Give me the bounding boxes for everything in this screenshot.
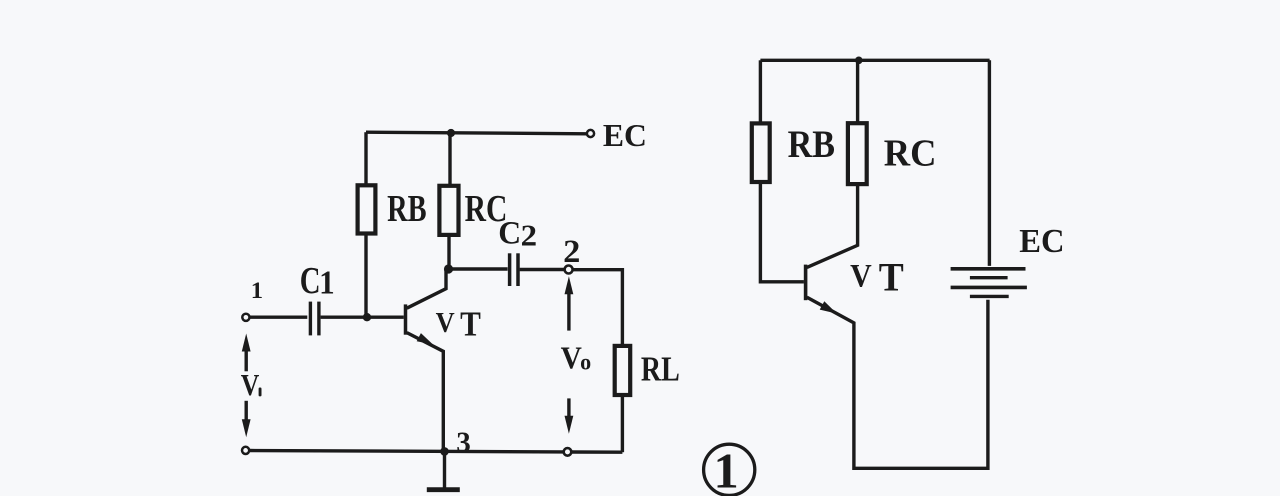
svg-text:V: V bbox=[561, 340, 582, 375]
svg-text:RB: RB bbox=[788, 122, 835, 166]
svg-text:RC: RC bbox=[884, 133, 937, 175]
svg-text:3: 3 bbox=[456, 427, 471, 459]
svg-text:RB: RB bbox=[387, 188, 426, 230]
svg-text:C: C bbox=[498, 214, 521, 251]
svg-text:V: V bbox=[241, 369, 260, 403]
svg-text:V: V bbox=[850, 257, 872, 294]
svg-text:T: T bbox=[879, 256, 904, 299]
svg-text:C: C bbox=[300, 260, 321, 302]
svg-text:EC: EC bbox=[603, 118, 647, 153]
svg-text:1: 1 bbox=[319, 264, 335, 301]
svg-text:1: 1 bbox=[714, 443, 739, 496]
svg-text:RL: RL bbox=[641, 350, 680, 388]
svg-text:2: 2 bbox=[563, 234, 580, 270]
svg-text:T: T bbox=[460, 305, 481, 344]
svg-text:EC: EC bbox=[1019, 224, 1064, 260]
svg-text:V: V bbox=[436, 307, 455, 338]
svg-text:o: o bbox=[580, 349, 591, 375]
svg-text:1: 1 bbox=[251, 279, 263, 304]
svg-text:2: 2 bbox=[521, 218, 537, 252]
